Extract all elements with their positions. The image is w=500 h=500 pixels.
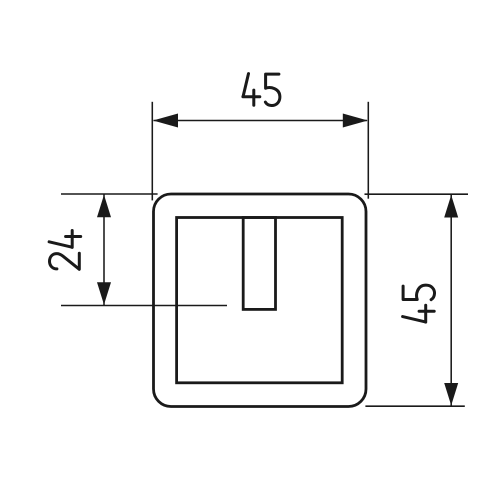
- arrowhead: left dimension down: [97, 282, 111, 305]
- arrowhead: left dimension up: [97, 195, 111, 218]
- arrowhead: right dimension down: [444, 383, 458, 406]
- dimension text 24 (left, rotated): [49, 231, 81, 270]
- dimension line: right height 45: [450, 195, 452, 406]
- extension line: top dimension right: [367, 102, 369, 199]
- dimension line: top width 45: [154, 120, 368, 122]
- extension line: top dimension left: [151, 102, 153, 201]
- extension line: right dimension bottom: [365, 405, 464, 407]
- inner cavity square: [177, 218, 343, 383]
- arrowhead: top dimension left: [153, 114, 178, 128]
- extension line: right dimension top: [365, 193, 469, 195]
- center slot rectangle: [243, 218, 275, 310]
- dimension text 45 (right, rotated): [403, 285, 435, 322]
- arrowhead: right dimension up: [444, 195, 458, 218]
- outer profile contour (rounded square 45x45): [154, 194, 367, 407]
- dimension line: left depth 24: [103, 195, 105, 306]
- arrowhead: top dimension right: [343, 114, 368, 128]
- extension line: left dimension bottom: [61, 305, 227, 307]
- extension line: left dimension top: [61, 193, 158, 195]
- dimension text 45 (top): [243, 74, 280, 106]
